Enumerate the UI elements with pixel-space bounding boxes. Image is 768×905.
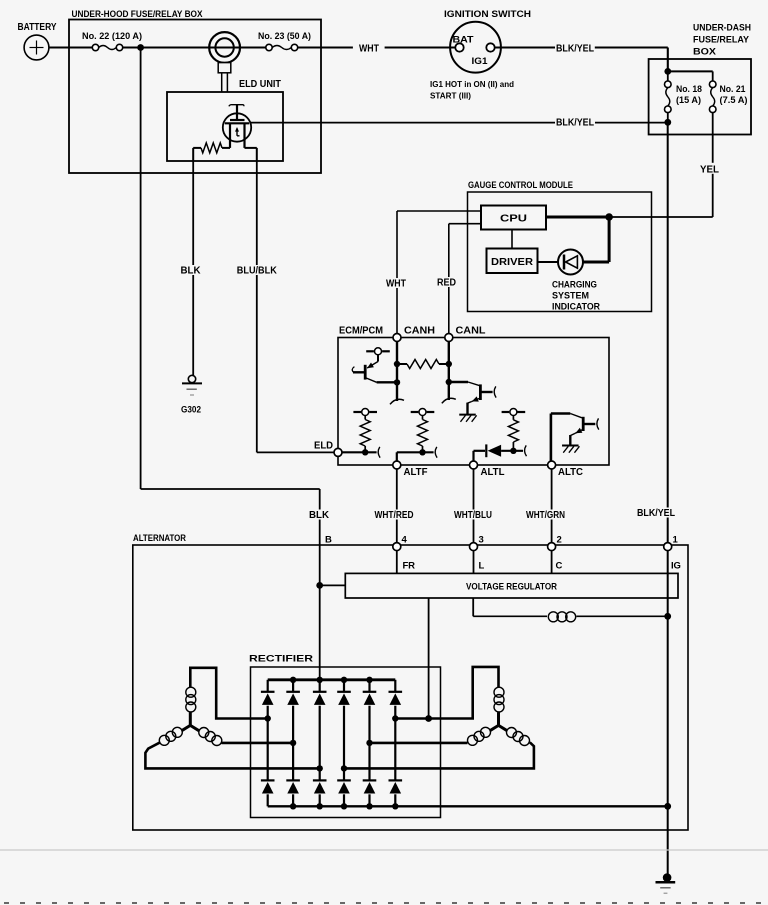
svg-text:(15 A): (15 A) [676,95,701,105]
svg-text:BOX: BOX [693,47,717,58]
node battery feed junction [137,44,144,51]
fuse No. 21 (7.5 A) [712,71,714,81]
wire right stator phase C to rectifier [344,742,534,768]
svg-text:No. 21: No. 21 [720,84,746,94]
svg-text:WHT/RED: WHT/RED [375,510,414,521]
fuse No. 23 (50 A) [266,44,272,50]
ELD current sensor ring [210,46,241,48]
svg-text:SYSTEM: SYSTEM [552,291,589,302]
svg-text:CPU: CPU [500,213,527,225]
wire VR to field coil [472,598,474,616]
diode ALTL [485,444,487,457]
ground Q3 emitter [562,445,579,447]
voltage regulator [345,573,678,598]
svg-text:UNDER-DASH: UNDER-DASH [693,23,751,34]
wire CPU to charging system indicator [546,216,609,219]
node rectifier phase tap 5 [366,740,372,746]
CPU [481,206,546,230]
ground alternator case [663,873,672,882]
svg-text:FUSE/RELAY: FUSE/RELAY [693,35,750,46]
wire FET source to box bottom (BLU/BLK) [245,147,257,149]
terminal 3 L [470,543,478,551]
node under-dash feed junction [664,68,671,75]
svg-text:CANH: CANH [404,326,435,337]
svg-text:IG1 HOT in ON (II) and: IG1 HOT in ON (II) and [430,79,514,89]
wire ALTL internal [472,451,474,461]
ignition switch [450,22,501,73]
wire fuse No.23 to WHT [298,46,353,48]
battery [24,35,49,60]
ECM/PCM box [338,338,609,466]
wire BLK/YEL under-dash to alternator IG [667,122,669,874]
ground G302 [188,375,195,382]
node B to voltage regulator junction [316,582,323,589]
wire ignition IG1 to under-dash box (BLK/YEL) [495,46,555,48]
rectifier diode D3 bottom [319,768,321,779]
rectifier box [251,667,441,818]
svg-text:CHARGING: CHARGING [552,280,597,291]
wire CPU to DRIVER [511,230,513,249]
wire WHT/BLU ALTL to alternator L [473,469,475,543]
wire WHT/RED ALTF to alternator FR [396,469,398,543]
node CPU output junction [605,213,613,221]
wire ELD unit output to under-dash box (BLK/YEL) [251,122,668,124]
transistor Q1 CANH driver [366,350,374,352]
svg-text:3: 3 [479,535,484,546]
wire fuse No.22 to ELD sensor [123,46,210,48]
terminal 2 C [548,543,556,551]
resistor ELD pull-up [364,416,366,420]
wire B down to rectifier bus [319,545,321,680]
wire ELD sensor to fuse No.23 [240,46,266,48]
rectifier diode D2 top [292,680,294,691]
svg-text:WHT: WHT [386,279,406,290]
svg-text:L: L [479,561,485,572]
alternator box [133,545,688,830]
wire WHT CPU to ECM CANH [397,210,481,212]
svg-text:B: B [325,535,332,546]
terminal CANH [393,334,401,342]
wire RED CPU to ECM CANL [449,223,481,225]
svg-text:ALTERNATOR: ALTERNATOR [133,533,186,544]
node VR sense junction [425,715,432,722]
wire left stator phase C to rectifier [145,743,319,769]
svg-text:WHT: WHT [359,43,379,54]
rectifier diode D5 top [368,680,370,691]
resistor CAN termination [397,363,407,365]
wire WHT/GRN ALTC to alternator C [551,469,553,543]
wire BLK label [308,510,330,520]
svg-text:GAUGE CONTROL MODULE: GAUGE CONTROL MODULE [468,180,573,190]
right stator winding [497,713,500,726]
svg-text:BLU/BLK: BLU/BLK [237,266,278,277]
svg-text:WHT/BLU: WHT/BLU [454,510,492,521]
svg-text:VOLTAGE REGULATOR: VOLTAGE REGULATOR [466,582,557,593]
charging system indicator lamp [538,261,559,263]
svg-text:2: 2 [557,535,562,546]
scan edge artifact [0,849,768,851]
terminal ALTC [548,461,556,469]
svg-text:IGNITION SWITCH: IGNITION SWITCH [444,9,531,20]
pull-up supply ELD [353,411,361,413]
gauge control module box [468,192,652,312]
terminal ALTF [393,461,401,469]
svg-text:UNDER-HOOD FUSE/RELAY BOX: UNDER-HOOD FUSE/RELAY BOX [72,9,204,20]
pull-up supply ALTL [502,411,510,413]
svg-text:ALTF: ALTF [404,467,428,478]
svg-text:ECM/PCM: ECM/PCM [339,326,383,337]
rectifier diode D3 top [319,680,321,691]
rectifier diode D1 top [267,680,269,691]
wire right stator phase A to rectifier [395,667,498,719]
ELD unit FET sensor element [229,105,244,107]
rectifier diode D1 bottom [267,719,269,780]
svg-text:G302: G302 [181,405,201,416]
node negative bus to ground junction [664,803,671,810]
rectifier diode D2 bottom [292,743,294,780]
svg-text:No. 18: No. 18 [676,84,702,94]
node rectifier phase tap 1 [265,715,271,721]
rectifier diode D4 top [343,680,345,691]
transistor Q3 ALTC [550,414,553,462]
svg-text:IG1: IG1 [472,56,489,67]
terminal 1 IG [664,543,672,551]
terminal ALTL [470,461,478,469]
ELD unit resistor [222,147,230,149]
transistor Q2 CANL driver [449,381,468,383]
svg-text:No. 23 (50 A): No. 23 (50 A) [258,31,311,41]
wire BLU/BLK to ECM ELD terminal [256,161,258,452]
left stator winding [189,713,192,726]
under-hood fuse/relay box [69,20,321,174]
rectifier diode D5 bottom [368,743,370,780]
terminal CANL [445,334,453,342]
svg-text:INDICATOR: INDICATOR [552,302,600,313]
wire YEL fuse21 to gauge module [712,113,714,217]
field coil [548,612,558,622]
svg-text:No. 22 (120 A): No. 22 (120 A) [82,31,142,41]
node rectifier phase tap 6 [392,715,398,721]
rectifier negative bus [268,805,668,807]
wire right stator phase B to rectifier [370,742,468,745]
wire battery junction down to alternator B [140,48,142,490]
svg-text:DRIVER: DRIVER [491,256,533,268]
rectifier diode D6 top [394,680,396,691]
svg-text:RED: RED [437,278,456,289]
svg-text:BLK/YEL: BLK/YEL [556,118,594,129]
wire battery to fuse No.22 [49,46,92,48]
wire BLK to ground G302 [192,161,194,375]
pull-up supply ALTF [411,411,419,413]
ELD unit box [167,92,283,161]
under-dash fuse/relay box [649,59,751,135]
rectifier diode D4 bottom [343,768,345,779]
svg-text:ALTL: ALTL [481,467,505,478]
wire left stator phase B to rectifier [222,742,294,745]
svg-text:CANL: CANL [456,326,486,337]
node rectifier phase tap 3 [317,765,323,771]
fuse No. 18 (15 A) [667,71,669,81]
wire ELD resistor to box bottom (BLK) [192,148,194,161]
ground Q2 emitter [459,414,476,416]
svg-text:C: C [556,561,563,572]
resistor ALTL pull-up [512,416,514,420]
node rectifier phase tap 4 [341,765,347,771]
CANH internal line [396,342,398,402]
rectifier positive bus [268,678,396,681]
svg-text:(7.5 A): (7.5 A) [720,95,748,105]
svg-text:FR: FR [403,561,416,572]
resistor ALTF pull-up [422,416,424,420]
rectifier diode D6 bottom [394,719,396,780]
CANL internal line [448,342,450,401]
node rectifier phase tap 2 [290,740,296,746]
svg-text:BATTERY: BATTERY [18,22,57,33]
svg-text:BLK/YEL: BLK/YEL [556,43,594,54]
terminal ELD [334,448,342,456]
svg-text:BAT: BAT [453,35,474,46]
svg-text:BLK: BLK [181,266,202,277]
svg-text:RECTIFIER: RECTIFIER [249,654,313,664]
svg-text:IG: IG [671,561,681,572]
wire ELD terminal line [342,451,377,453]
DRIVER [487,249,538,274]
svg-text:START (III): START (III) [430,91,471,101]
node field coil to IG junction [664,613,671,620]
svg-text:BLK/YEL: BLK/YEL [637,508,675,519]
wire left stator phase A to rectifier [190,668,267,719]
wire VR to stator sense [428,598,430,719]
svg-text:ALTC: ALTC [558,467,583,478]
svg-text:ELD: ELD [314,441,333,452]
svg-text:YEL: YEL [700,164,719,175]
svg-text:BLK: BLK [309,510,330,521]
svg-text:WHT/GRN: WHT/GRN [526,510,565,521]
node fuse18 to ELD line junction [664,119,671,126]
wire ALTF internal [396,452,398,461]
terminal 4 FR [393,543,401,551]
fuse No. 22 (120 A) [92,44,98,50]
svg-text:ELD UNIT: ELD UNIT [239,79,281,90]
